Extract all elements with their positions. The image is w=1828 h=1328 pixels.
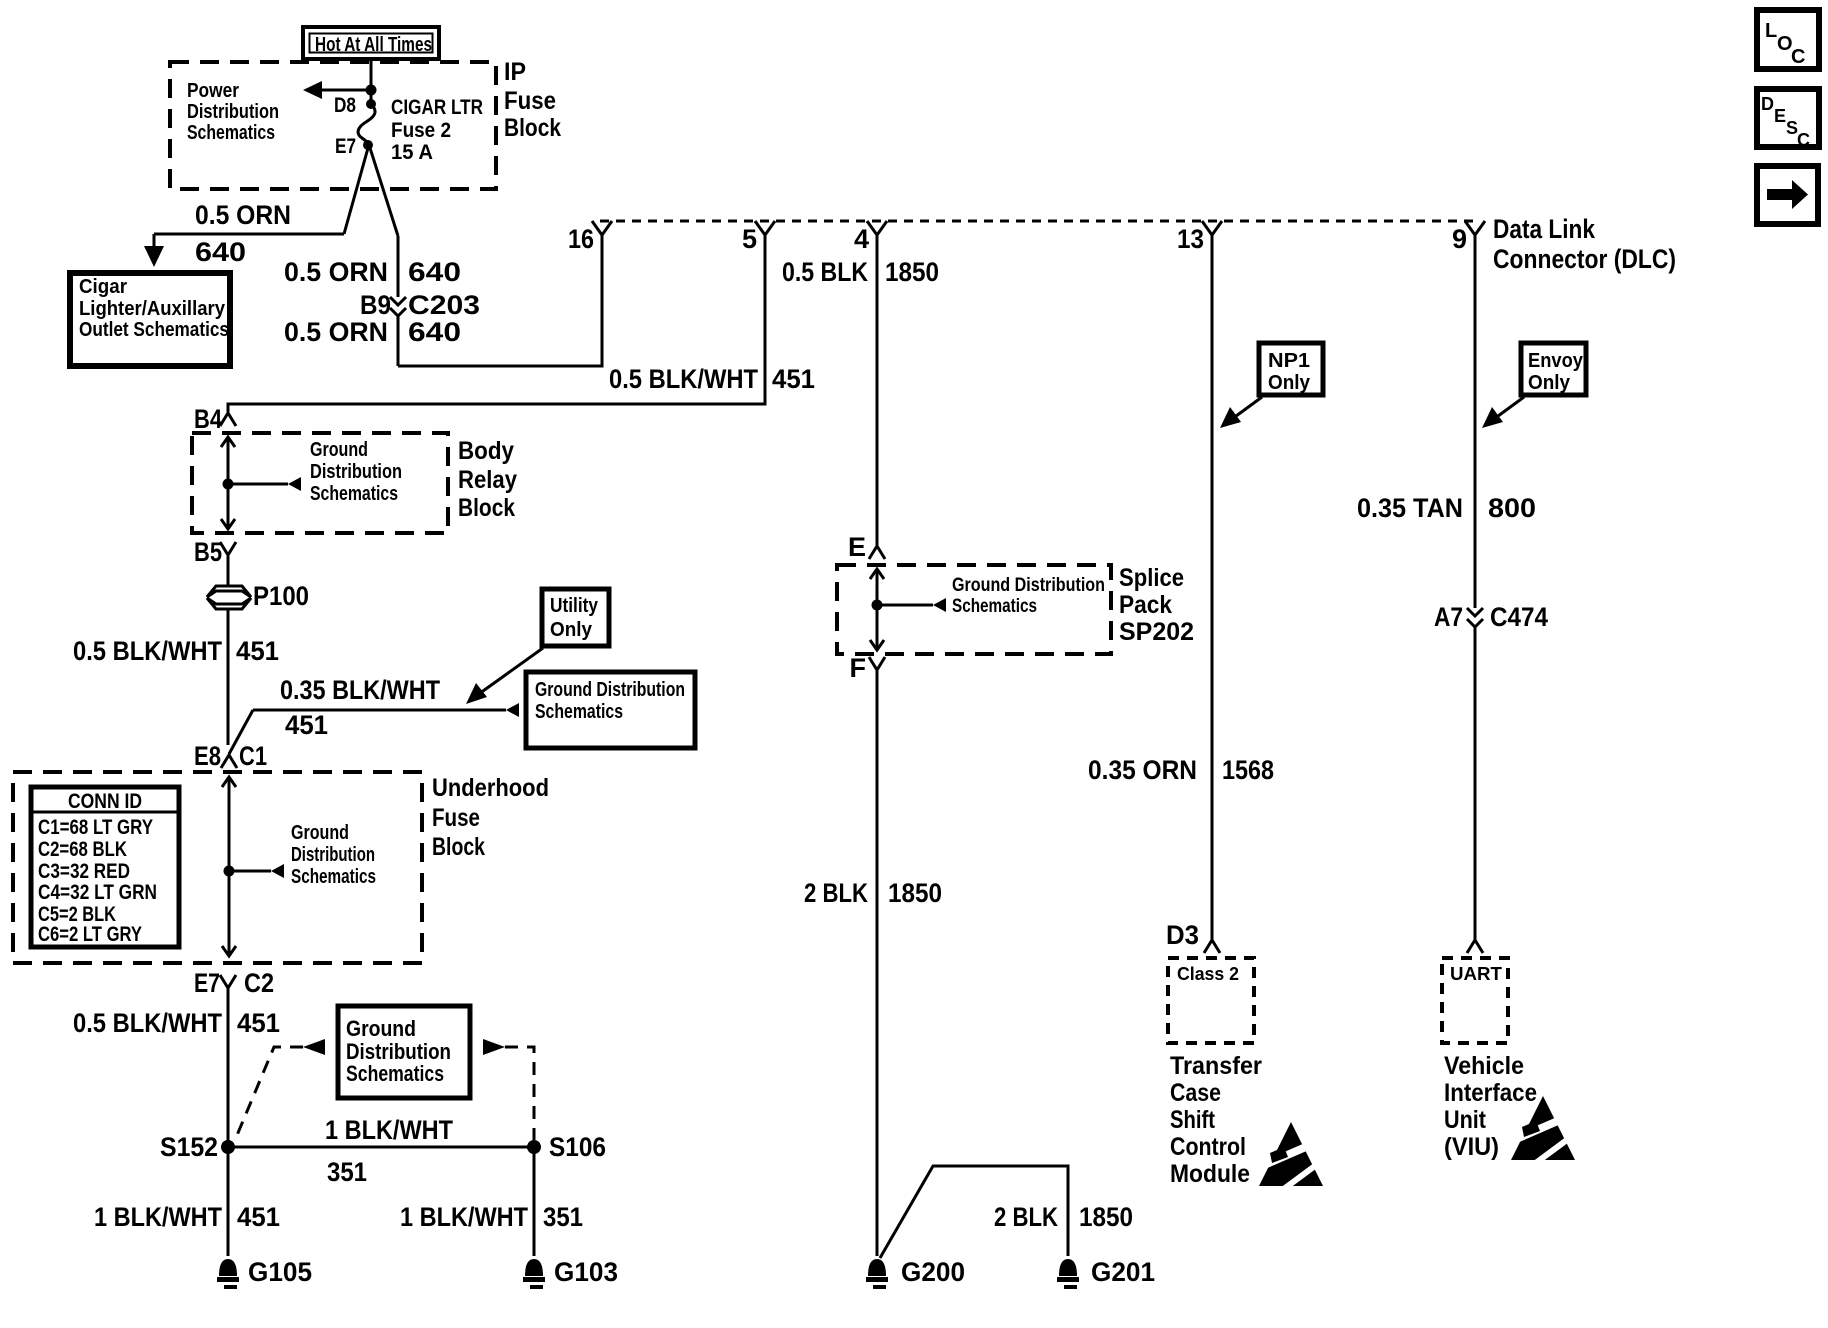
svg-text:Splice: Splice [1119,564,1184,592]
svg-text:C474: C474 [1490,602,1548,632]
svg-text:1850: 1850 [885,257,939,287]
wire B5 to P100 [227,555,230,586]
svg-text:(VIU): (VIU) [1444,1133,1499,1161]
svg-text:0.5 ORN: 0.5 ORN [284,257,388,287]
svg-text:Connector (DLC): Connector (DLC) [1493,244,1676,274]
junction dot (underhood fuse block) [224,866,235,877]
junction dot (splice pack) [872,600,883,611]
svg-text:Pack: Pack [1119,591,1172,619]
Hot At All Times power feed box [303,27,439,59]
svg-text:1 BLK/WHT: 1 BLK/WHT [400,1202,528,1232]
svg-text:A7: A7 [1434,602,1463,632]
svg-text:Schematics: Schematics [310,483,398,505]
svg-text:Underhood: Underhood [432,774,549,802]
svg-text:C2=68 BLK: C2=68 BLK [38,838,127,861]
ground G103 [523,1257,618,1289]
wire below A7/C474 to VIU [1474,627,1477,940]
svg-text:C2: C2 [244,968,274,998]
svg-text:Block: Block [504,114,561,142]
svg-text:C4=32 LT GRN: C4=32 LT GRN [38,881,157,904]
svg-text:351: 351 [543,1202,583,1232]
wire S152-S106 (1 BLK/WHT 351) [228,1146,534,1149]
svg-text:5: 5 [742,224,757,254]
svg-text:Distribution: Distribution [310,461,402,483]
wire P100 to E8 [227,609,230,745]
svg-text:Transfer: Transfer [1170,1052,1262,1080]
svg-text:F: F [850,653,867,683]
svg-text:C6=2 LT GRY: C6=2 LT GRY [38,923,142,946]
svg-text:2 BLK: 2 BLK [804,878,868,908]
Cigar Lighter/Auxillary Outlet Schematics box [70,273,230,366]
svg-text:Data Link: Data Link [1493,214,1596,244]
svg-text:Only: Only [1268,372,1311,394]
svg-text:E: E [1774,106,1786,126]
DESC legend box [1757,89,1819,150]
CONN ID table [31,787,179,947]
svg-text:0.35 BLK/WHT: 0.35 BLK/WHT [280,675,440,705]
svg-text:Schematics: Schematics [346,1061,444,1086]
Data Link Connector dashed bus [600,220,1477,223]
wire F to G200 (2 BLK 1850) [876,670,879,1256]
svg-text:0.35 TAN: 0.35 TAN [1357,493,1463,523]
grommet P100 [207,581,309,611]
ESD symbol (VIU) [1511,1096,1579,1165]
svg-text:Utility: Utility [550,595,599,617]
terminal B4 [194,404,236,434]
svg-text:G105: G105 [248,1257,312,1287]
wire: 0.35 BLK/WHT 451 branch [229,703,519,754]
wire S106 to G103 (1 BLK/WHT 351) [533,1147,536,1256]
svg-text:Ground Distribution: Ground Distribution [952,575,1105,596]
dashed leader to S152 [235,1039,325,1140]
wire S152 to G105 (1 BLK/WHT 451) [227,1147,230,1256]
svg-text:G201: G201 [1091,1257,1155,1287]
pin 9 terminal [1452,221,1485,254]
svg-text:1 BLK/WHT: 1 BLK/WHT [94,1202,222,1232]
svg-text:B9: B9 [360,290,391,320]
svg-text:Block: Block [432,833,485,861]
arrow from NP1 Only to pin 13 wire [1220,397,1262,428]
svg-text:Interface: Interface [1444,1079,1537,1107]
LOC legend box [1757,10,1819,69]
Splice Pack SP202 dashed box [837,565,1111,654]
svg-text:0.5 BLK: 0.5 BLK [782,257,868,287]
terminal F (splice pack) [850,653,886,683]
svg-text:Schematics: Schematics [535,701,623,723]
terminal B5 [194,537,236,567]
Envoy Only callout box [1521,343,1586,395]
svg-text:Class 2: Class 2 [1177,964,1239,984]
svg-text:640: 640 [195,237,246,267]
svg-text:B5: B5 [194,537,222,567]
wire E7/C2 to S152 [227,988,230,1147]
svg-text:800: 800 [1488,493,1536,523]
svg-text:Fuse: Fuse [504,87,556,115]
svg-text:0.35 ORN: 0.35 ORN [1088,755,1197,785]
ESD symbol (transfer case module) [1259,1122,1327,1191]
svg-text:Block: Block [458,494,515,522]
svg-text:1850: 1850 [1079,1202,1133,1232]
wire: pin 13 to D3 (0.35 ORN 1568) [1211,235,1214,940]
svg-text:1850: 1850 [888,878,942,908]
svg-text:IP: IP [504,58,526,86]
junction dot (body relay block) [223,479,234,490]
svg-text:Only: Only [1528,372,1571,394]
svg-text:Fuse: Fuse [432,804,480,832]
svg-text:15 A: 15 A [391,141,433,164]
ground G200 [866,1257,965,1289]
svg-text:C3=32 RED: C3=32 RED [38,860,130,883]
svg-text:Cigar: Cigar [79,276,127,298]
svg-text:B4: B4 [194,404,222,434]
wire inside body relay block [221,437,235,529]
svg-text:Schematics: Schematics [952,596,1037,617]
svg-text:C: C [1797,130,1810,150]
forward arrow legend box [1757,166,1818,224]
Utility Only callout box [542,589,609,646]
svg-text:Relay: Relay [458,466,517,494]
reference arrow (body relay block) [228,477,301,491]
Body Relay Block dashed box [192,433,448,533]
Ground Distribution Schematics box (utility branch) [526,672,695,748]
svg-text:E7: E7 [335,135,356,158]
svg-text:9: 9 [1452,224,1467,254]
pin 5 terminal [742,221,775,254]
wire inside underhood fuse block [222,777,236,956]
svg-text:4: 4 [854,224,869,254]
svg-text:16: 16 [568,224,594,254]
svg-text:Power: Power [187,80,239,102]
svg-text:CONN ID: CONN ID [68,790,142,813]
connector E8 C1 [194,741,267,771]
svg-text:Shift: Shift [1170,1106,1216,1134]
Class 2 dashed box [1168,958,1254,1043]
svg-text:Ground Distribution: Ground Distribution [535,679,685,701]
svg-text:CIGAR LTR: CIGAR LTR [391,96,483,119]
reference arrow (underhood fuse block) [229,864,284,878]
svg-text:Ground: Ground [310,439,368,461]
svg-text:Distribution: Distribution [187,101,279,123]
ground G105 [217,1257,312,1289]
svg-text:Unit: Unit [1444,1106,1487,1134]
connector E7 C2 [194,968,274,998]
svg-text:1 BLK/WHT: 1 BLK/WHT [325,1115,453,1145]
svg-text:0.5 ORN: 0.5 ORN [284,317,388,347]
wire run to DLC pin 16 [398,235,602,366]
svg-text:C1=68 LT GRY: C1=68 LT GRY [38,816,153,839]
svg-text:451: 451 [285,710,328,740]
NP1 Only callout box [1259,343,1323,395]
ground G201 [1057,1257,1155,1289]
svg-text:0.5 ORN: 0.5 ORN [195,200,291,230]
wire branch to G201 (2 BLK 1850) [880,1166,1068,1258]
svg-text:UART: UART [1450,964,1502,984]
svg-text:0.5 BLK/WHT: 0.5 BLK/WHT [73,1008,222,1038]
svg-text:Ground: Ground [346,1016,416,1041]
svg-text:Control: Control [1170,1133,1246,1161]
svg-text:Hot At All Times: Hot At All Times [315,34,432,56]
terminal E (splice pack) [848,532,885,562]
svg-text:Envoy: Envoy [1528,350,1584,372]
fuse CIGAR LTR Fuse 2 15 A [358,104,375,145]
wire: E7 right branch down to C203 [370,148,398,236]
svg-text:13: 13 [1177,224,1204,254]
svg-text:L: L [1765,20,1777,42]
svg-text:NP1: NP1 [1268,350,1310,372]
svg-text:Body: Body [458,437,514,465]
splice S152 [221,1140,235,1154]
svg-text:451: 451 [772,364,815,394]
svg-text:Schematics: Schematics [187,122,275,144]
svg-text:E: E [848,532,866,562]
svg-text:D: D [1761,94,1774,114]
wire: below C203 to pin 16 [397,316,400,366]
terminal D3 [1166,920,1220,953]
svg-text:D3: D3 [1166,920,1199,950]
svg-text:C203: C203 [408,290,480,320]
svg-text:351: 351 [327,1157,367,1187]
svg-text:2 BLK: 2 BLK [994,1202,1058,1232]
svg-text:640: 640 [408,257,461,287]
svg-text:0.5 BLK/WHT: 0.5 BLK/WHT [609,364,758,394]
svg-text:Case: Case [1170,1079,1221,1107]
svg-text:0.5 BLK/WHT: 0.5 BLK/WHT [73,636,222,666]
arrow from Envoy Only to pin 9 wire [1482,397,1524,428]
svg-text:C: C [1791,46,1805,68]
wire: pin 5 to B4 (0.5 BLK/WHT 451) [228,235,765,413]
wire inside splice pack [870,569,884,650]
svg-text:451: 451 [237,1008,280,1038]
wire from Hot At All Times into fuse block [370,59,373,104]
svg-text:1568: 1568 [1222,755,1274,785]
wire: pin 9 down (0.35 TAN 800) [1474,235,1477,608]
svg-text:Outlet Schematics: Outlet Schematics [79,319,229,341]
splice S106 [527,1140,541,1154]
svg-text:E7: E7 [194,968,220,998]
node D8 [366,99,376,109]
IP Fuse Block dashed box [170,62,496,189]
svg-text:Only: Only [550,619,593,641]
arrow to Power Distribution Schematics [303,81,377,99]
svg-text:Vehicle: Vehicle [1444,1052,1524,1080]
connector A7 C474 [1434,602,1548,632]
svg-text:Fuse 2: Fuse 2 [391,119,451,142]
svg-text:D8: D8 [334,94,356,117]
svg-text:S106: S106 [549,1132,606,1162]
svg-text:Schematics: Schematics [291,866,376,888]
wire: pin 4 down (0.5 BLK 1850) [876,235,879,546]
dashed leader to S106 [483,1039,534,1140]
connector B9 C203 [360,290,480,320]
svg-text:Lighter/Auxillary: Lighter/Auxillary [79,298,226,320]
arrow from Utility Only to wire [466,648,543,704]
svg-text:451: 451 [236,636,279,666]
Ground Distribution Schematics box (splices) [338,1006,470,1098]
svg-text:Distribution: Distribution [291,844,375,866]
svg-text:E8: E8 [194,741,221,771]
wire: E7 left branch to cigar lighter schematics [344,148,368,234]
svg-text:S152: S152 [160,1132,218,1162]
pin 16 terminal [568,221,612,254]
node E7 (fuse output) [363,140,373,150]
svg-text:G103: G103 [554,1257,618,1287]
pin 13 terminal [1177,221,1222,254]
svg-text:451: 451 [237,1202,280,1232]
UART dashed box [1442,958,1508,1043]
terminal at VIU [1467,940,1483,953]
svg-text:640: 640 [408,317,461,347]
svg-text:SP202: SP202 [1119,618,1194,646]
svg-text:C1: C1 [239,741,267,771]
reference arrow (splice pack) [877,598,946,612]
svg-text:Module: Module [1170,1160,1250,1188]
svg-text:Ground: Ground [291,822,349,844]
svg-text:P100: P100 [253,581,309,611]
Underhood Fuse Block dashed box [13,772,422,963]
pin 4 terminal [854,221,887,254]
svg-text:G200: G200 [901,1257,965,1287]
